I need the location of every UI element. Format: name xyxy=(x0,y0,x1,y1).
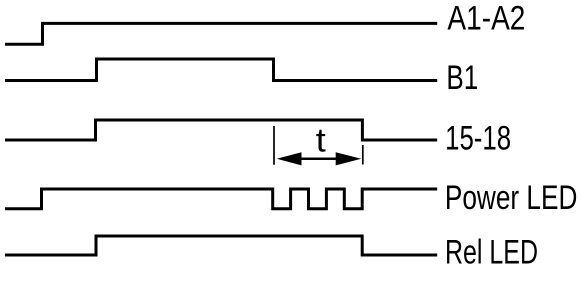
timing arrowhead left xyxy=(277,152,302,165)
svg-text:B1: B1 xyxy=(446,59,478,97)
svg-text:Rel LED: Rel LED xyxy=(445,234,538,272)
svg-text:15-18: 15-18 xyxy=(445,119,511,157)
waveform trace 15-18 (relay output contact): high pulse ending after delay t xyxy=(5,120,437,140)
waveform trace B1 (control contact): single high pulse xyxy=(5,59,437,81)
waveform trace Power LED: high with three blink notches during t xyxy=(5,189,437,209)
waveform trace A1-A2 (supply voltage): low then high step xyxy=(5,23,437,44)
svg-text:A1-A2: A1-A2 xyxy=(447,0,525,37)
timing arrow shaft xyxy=(299,158,338,161)
dimension tick right (end of timing interval t) xyxy=(362,145,364,165)
waveform trace Rel LED: high pulse ending at end of t xyxy=(5,236,437,255)
dimension tick left (start of timing interval t) xyxy=(273,126,275,165)
timing arrowhead right xyxy=(336,152,362,165)
svg-text:t: t xyxy=(316,122,327,159)
svg-text:Power LED: Power LED xyxy=(445,179,578,217)
